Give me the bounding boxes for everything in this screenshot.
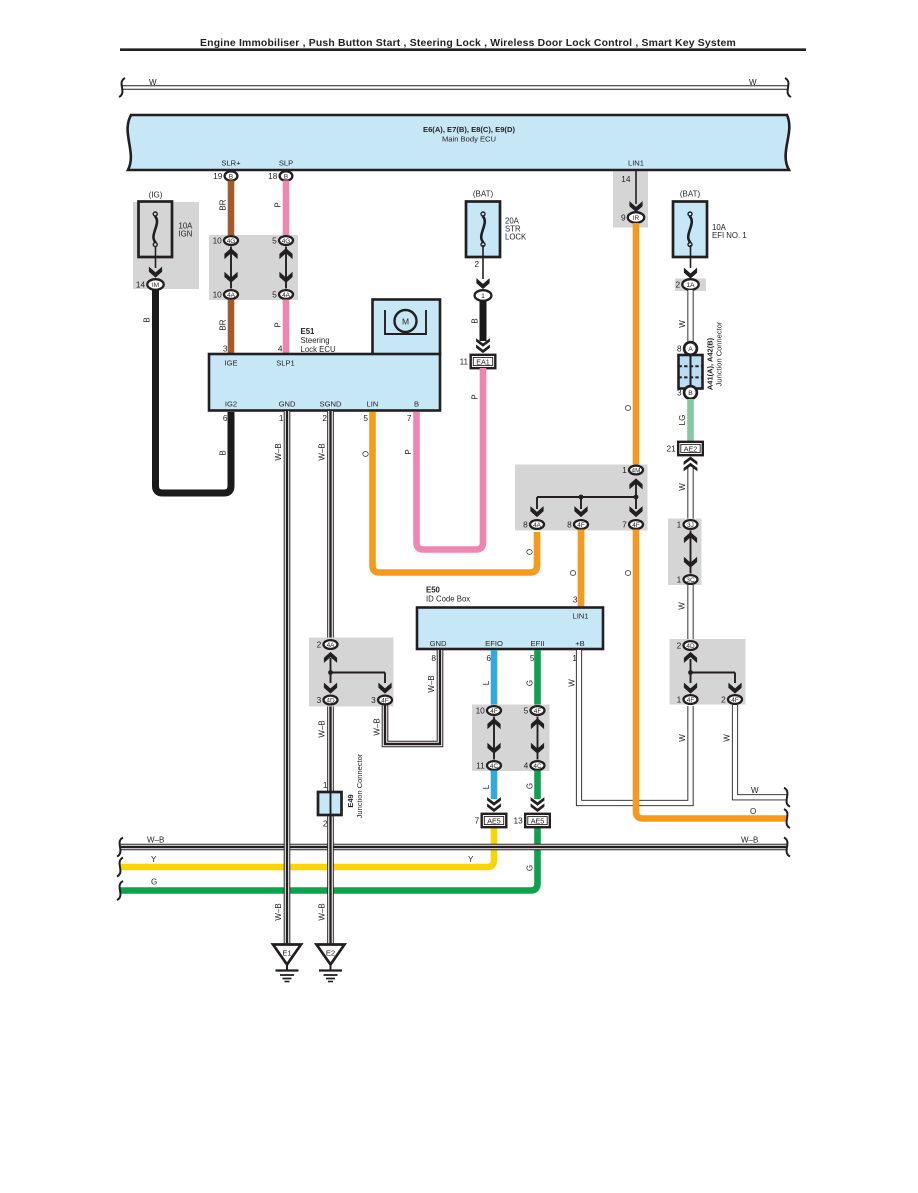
wire W +B to 4F1 [579, 650, 691, 803]
svg-text:8: 8 [677, 344, 682, 354]
junction lines 4D right [691, 659, 736, 683]
svg-text:O: O [526, 549, 535, 555]
ground E2 [317, 945, 345, 982]
break symbol W-B left [117, 838, 123, 857]
junction dot mid [579, 495, 584, 500]
arrow into IM [149, 267, 162, 278]
svg-text:AE5: AE5 [487, 816, 501, 825]
pin 3 B circle [677, 386, 697, 399]
svg-text:4F: 4F [490, 708, 498, 715]
svg-text:W–B: W–B [741, 836, 758, 845]
connector pin 18 B [268, 171, 292, 181]
svg-text:A41(A), A42(B): A41(A), A42(B) [706, 337, 715, 390]
pair arrow 4G-4A right [285, 247, 287, 289]
svg-text:(BAT): (BAT) [680, 190, 701, 199]
connector 10 4A [213, 290, 238, 300]
gray block 4F-4C [472, 705, 550, 772]
svg-text:W–B: W–B [318, 720, 327, 737]
svg-text:B: B [229, 173, 234, 180]
gray block 4D right [670, 639, 746, 705]
svg-text:EA1: EA1 [476, 357, 490, 366]
svg-text:2: 2 [721, 695, 726, 705]
svg-text:1: 1 [677, 695, 682, 705]
arrow into 4M [629, 478, 642, 489]
svg-text:2: 2 [317, 640, 322, 650]
fuse 20A STR LOCK [466, 202, 500, 258]
svg-text:E51: E51 [301, 327, 316, 336]
title underline [120, 48, 806, 51]
connector 2 4F right [721, 695, 742, 705]
break symbol top-right [785, 78, 791, 97]
svg-text:8: 8 [523, 520, 528, 530]
svg-text:W: W [678, 320, 687, 328]
svg-text:BR: BR [219, 319, 228, 330]
svg-text:W: W [678, 734, 687, 742]
connector 11 EA1 [460, 355, 496, 368]
svg-text:G: G [151, 878, 157, 887]
arrow into 1 [476, 278, 489, 289]
svg-text:11: 11 [476, 761, 485, 771]
arrow into 4F1 right [684, 683, 697, 694]
svg-text:11: 11 [460, 357, 469, 367]
svg-text:4C: 4C [533, 763, 542, 770]
junction lines 4M block [537, 483, 636, 509]
connector 11 4C [476, 761, 501, 771]
svg-text:G: G [526, 783, 535, 789]
arrow into 1A [684, 268, 697, 279]
wire LG B to AE2 [687, 399, 694, 441]
svg-text:1: 1 [279, 413, 284, 423]
svg-text:W–B: W–B [318, 903, 327, 920]
svg-text:3: 3 [371, 695, 376, 705]
svg-text:E6(A), E7(B), E8(C), E9(D): E6(A), E7(B), E8(C), E9(D) [423, 125, 515, 134]
wire fuse to 1A [690, 245, 692, 268]
wire W-B GND to E1 [284, 411, 291, 945]
connector 2 1A [675, 279, 698, 290]
svg-text:2: 2 [322, 413, 327, 423]
svg-text:G: G [526, 680, 535, 686]
connector 5 4A [272, 290, 293, 300]
connector 14 IM [136, 279, 164, 290]
svg-text:O: O [624, 570, 633, 576]
connector 2 4D [677, 641, 698, 651]
svg-text:1: 1 [677, 575, 682, 585]
svg-text:GND: GND [430, 639, 447, 648]
E51 block Steering Lock ECU [209, 354, 440, 411]
svg-text:W–B: W–B [427, 675, 436, 692]
svg-text:13: 13 [513, 816, 523, 826]
svg-text:Y: Y [151, 855, 157, 864]
arrow into 4A2 [324, 652, 337, 663]
gray strip IG fuse [133, 202, 199, 289]
svg-text:Lock ECU: Lock ECU [301, 345, 336, 354]
wire W-B 4F3 to E50 GND [385, 650, 440, 744]
connector 10 4G [213, 236, 238, 246]
connector 2 4A [317, 640, 338, 650]
connector 8 4A [523, 520, 544, 530]
svg-text:10: 10 [213, 236, 223, 246]
svg-text:4G: 4G [227, 238, 236, 245]
svg-text:W: W [568, 679, 577, 687]
svg-text:E49: E49 [346, 794, 355, 807]
connector 3 4D [317, 695, 338, 705]
junction connector E49 [318, 792, 342, 815]
svg-text:O: O [362, 451, 371, 457]
svg-text:4: 4 [524, 761, 529, 771]
svg-text:4D: 4D [326, 697, 335, 704]
svg-text:4F: 4F [577, 522, 585, 529]
double arrow into AE5 left [487, 803, 501, 812]
connector 7 AE5 [475, 814, 507, 827]
wire W top bus [122, 85, 788, 89]
svg-text:+B: +B [575, 639, 585, 648]
wire O 4F7 to break [636, 530, 787, 819]
svg-text:2: 2 [675, 280, 680, 290]
svg-text:2: 2 [677, 641, 682, 651]
gray block 3J-3C [668, 519, 702, 586]
connector 3 4F [371, 695, 392, 705]
wire W-B 4D to E2 [327, 706, 334, 945]
svg-text:4D: 4D [686, 643, 695, 650]
svg-text:4F: 4F [632, 522, 640, 529]
arrow into 4D2 [684, 652, 697, 663]
svg-text:LG: LG [678, 415, 687, 426]
wire W-B bottom bus [120, 844, 787, 851]
connector 8 4F [567, 520, 588, 530]
svg-text:W: W [723, 734, 732, 742]
svg-text:W: W [149, 78, 157, 87]
junction dot 4D right [688, 670, 693, 675]
svg-text:AE5: AE5 [531, 816, 545, 825]
svg-text:9: 9 [621, 213, 626, 223]
wire L 4C to AE5 [491, 771, 498, 800]
svg-text:8: 8 [431, 653, 436, 663]
connector pin 19 B [213, 171, 237, 181]
svg-text:4F: 4F [534, 708, 542, 715]
svg-text:W–B: W–B [373, 718, 382, 735]
break symbol Y left [117, 858, 123, 877]
motor bracket [385, 310, 426, 334]
svg-text:W–B: W–B [274, 443, 283, 460]
ground E1 [273, 945, 301, 982]
wire Y AE5 to left break [120, 827, 494, 867]
wire W-B SGND to 4A [327, 411, 334, 639]
double arrow below AE2 [684, 457, 698, 466]
svg-text:IG2: IG2 [225, 400, 237, 409]
svg-text:4A: 4A [282, 292, 291, 299]
gray block 4A-4D [309, 638, 394, 707]
double arrow into EA1 [476, 345, 490, 354]
svg-text:18: 18 [268, 171, 278, 181]
svg-text:2: 2 [323, 819, 328, 829]
svg-text:SLP: SLP [279, 159, 293, 168]
svg-text:EFIO: EFIO [485, 639, 503, 648]
svg-text:B: B [471, 318, 480, 323]
svg-text:1: 1 [622, 465, 627, 475]
svg-text:EFI NO. 1: EFI NO. 1 [712, 231, 747, 240]
svg-text:IM: IM [152, 282, 159, 289]
connector 21 AE2 [666, 442, 702, 455]
svg-text:LIN: LIN [367, 400, 379, 409]
svg-text:L: L [482, 680, 491, 685]
svg-text:ID Code Box: ID Code Box [426, 595, 470, 604]
svg-text:E50: E50 [426, 586, 441, 595]
junction lines 4A-4D [331, 658, 386, 683]
connector 5 4F [524, 706, 545, 716]
connector 1 4F right [677, 695, 698, 705]
svg-text:19: 19 [213, 171, 223, 181]
svg-text:1: 1 [323, 780, 328, 790]
connector 1 3J [677, 520, 698, 530]
connector 13 AE5 [513, 814, 549, 827]
svg-text:4: 4 [278, 344, 283, 354]
wire fuse to 1 [482, 245, 484, 279]
svg-text:W–B: W–B [274, 903, 283, 920]
connector 10 4F [476, 706, 501, 716]
svg-text:1: 1 [677, 520, 682, 530]
connector 1 3C [677, 575, 698, 585]
svg-text:BR: BR [219, 199, 228, 210]
svg-text:W: W [751, 786, 759, 795]
svg-text:4A: 4A [327, 642, 336, 649]
wire BR 4A to IGE [228, 300, 235, 355]
svg-text:SLP1: SLP1 [276, 359, 295, 368]
svg-text:3: 3 [677, 388, 682, 398]
svg-text:W: W [678, 483, 687, 491]
svg-text:L: L [482, 784, 491, 789]
svg-text:SGND: SGND [320, 400, 342, 409]
svg-text:10: 10 [213, 290, 223, 300]
svg-text:1A: 1A [687, 282, 696, 289]
svg-text:5: 5 [272, 236, 277, 246]
arrow into IR [629, 201, 642, 212]
svg-text:Engine Immobiliser , Push Butt: Engine Immobiliser , Push Button Start ,… [200, 38, 736, 49]
svg-text:3J: 3J [687, 522, 694, 529]
svg-text:EFII: EFII [531, 639, 545, 648]
svg-text:5: 5 [363, 413, 368, 423]
fuse 10A IGN [139, 202, 173, 258]
E50 block ID Code Box [417, 608, 603, 650]
svg-text:IGN: IGN [179, 230, 193, 239]
svg-text:3C: 3C [686, 577, 695, 584]
svg-text:B: B [414, 400, 419, 409]
svg-text:3: 3 [223, 344, 228, 354]
svg-text:7: 7 [407, 413, 412, 423]
svg-text:Y: Y [468, 855, 474, 864]
svg-text:LIN1: LIN1 [628, 159, 644, 168]
svg-text:5: 5 [530, 653, 535, 663]
svg-text:E1: E1 [282, 949, 291, 958]
svg-text:21: 21 [666, 444, 676, 454]
svg-text:SLR+: SLR+ [221, 159, 241, 168]
ECU block E6-E9 Main Body ECU [128, 115, 790, 170]
svg-text:14: 14 [621, 174, 631, 184]
connector 1 4M [622, 465, 643, 475]
svg-text:3: 3 [317, 695, 322, 705]
pin 8 A circle [677, 342, 697, 355]
svg-text:P: P [274, 202, 283, 207]
junction dot 4A-4D [328, 670, 333, 675]
svg-text:6: 6 [223, 413, 228, 423]
svg-text:G: G [526, 865, 535, 871]
svg-text:14: 14 [136, 280, 146, 290]
svg-text:IR: IR [633, 215, 640, 222]
wire fuse to IM [155, 246, 157, 268]
svg-text:A: A [688, 346, 693, 353]
pair arrow 3J-3C [690, 531, 692, 574]
svg-text:O: O [750, 807, 756, 816]
svg-text:B: B [284, 173, 289, 180]
svg-text:8: 8 [567, 520, 572, 530]
junction dot right [634, 495, 639, 500]
wire W 1A to A41 [687, 290, 693, 343]
break symbol W-B right [784, 838, 790, 857]
double arrow into AE5 right [531, 803, 545, 812]
wire W 3C to 4D [687, 585, 693, 640]
arrow into 4F2 right [728, 683, 741, 694]
svg-text:4M: 4M [632, 467, 641, 474]
svg-text:Junction Connector: Junction Connector [715, 321, 724, 386]
svg-text:M: M [402, 317, 409, 327]
junction connector A41 grid [679, 355, 703, 389]
break symbol G left [117, 881, 123, 900]
svg-text:E2: E2 [326, 949, 335, 958]
svg-text:LIN1: LIN1 [572, 612, 588, 621]
svg-text:1: 1 [481, 293, 485, 300]
svg-text:4A: 4A [533, 522, 542, 529]
wire O LIN to 4A [373, 412, 538, 573]
svg-text:4F: 4F [381, 697, 389, 704]
wire G AE5 to left break [120, 827, 538, 891]
pair arrow 4F-4C right [537, 717, 539, 760]
wire P SLP to 4G [283, 181, 290, 237]
svg-text:4G: 4G [282, 238, 291, 245]
svg-text:P: P [274, 322, 283, 327]
svg-text:B: B [688, 390, 693, 397]
svg-text:4F: 4F [687, 697, 695, 704]
svg-text:O: O [624, 405, 633, 411]
wire G EFII to 4F [534, 650, 541, 706]
svg-text:2: 2 [474, 259, 479, 269]
wire O 4F to E50 LIN1 [578, 530, 585, 608]
svg-text:O: O [569, 570, 578, 576]
svg-text:W–B: W–B [147, 836, 164, 845]
fuse 10A EFI NO.1 [673, 202, 707, 258]
pair arrow 4G-4A left [230, 247, 232, 289]
arrow into 4D3 [324, 683, 337, 694]
arrow into 4F mid [574, 506, 587, 517]
svg-text:P: P [404, 449, 413, 454]
gray block 4G-4A [209, 235, 298, 300]
svg-text:P: P [471, 394, 480, 399]
arrow into 4F3 [378, 683, 391, 694]
svg-text:7: 7 [622, 520, 627, 530]
svg-text:5: 5 [272, 290, 277, 300]
wire W 4F2 to break [735, 705, 787, 797]
svg-text:3: 3 [573, 595, 578, 605]
svg-text:4A: 4A [227, 292, 236, 299]
break symbol W right [784, 788, 790, 807]
wire G 4C to AE5 [534, 771, 541, 800]
wire B IM to IG2 [156, 290, 232, 494]
connector 4 4C [524, 761, 545, 771]
svg-text:6: 6 [486, 653, 491, 663]
connector 7 4F [622, 520, 643, 530]
wire L EFIO to 4F [491, 650, 498, 706]
svg-text:Main Body ECU: Main Body ECU [442, 135, 496, 144]
svg-text:IGE: IGE [224, 359, 237, 368]
wire P 4A to SLP1 [283, 300, 290, 355]
svg-text:(IG): (IG) [149, 191, 163, 200]
svg-text:W: W [678, 602, 687, 610]
gray strip 1A [675, 279, 706, 292]
break symbol O right [784, 809, 790, 828]
svg-text:7: 7 [475, 816, 480, 826]
gray strip LIN1 [613, 172, 648, 228]
wire B 1 to EA1 [480, 301, 487, 341]
wire O IR to 4M [633, 223, 640, 465]
svg-text:GND: GND [279, 400, 296, 409]
arrow into 4F right [629, 506, 642, 517]
svg-text:4C: 4C [490, 763, 499, 770]
wire W AE2 to 3J [687, 468, 693, 519]
svg-text:AE2: AE2 [684, 444, 698, 453]
pair arrow 4F-4C left [493, 717, 495, 760]
svg-text:10: 10 [476, 706, 486, 716]
break symbol top-left [119, 78, 125, 97]
svg-text:W: W [749, 78, 757, 87]
connector 9 IR [621, 212, 644, 223]
connector 5 4G [272, 236, 293, 246]
wire pin14 to IR [635, 171, 637, 204]
svg-text:4F: 4F [731, 697, 739, 704]
wire P EA1 loop to B [417, 368, 484, 550]
connector 1 oval [475, 290, 492, 301]
motor box of E51 [373, 300, 441, 355]
arrow into 4A mid [530, 506, 543, 517]
svg-text:Steering: Steering [301, 336, 330, 345]
svg-text:W–B: W–B [318, 443, 327, 460]
motor M circle [395, 310, 417, 332]
svg-text:B: B [219, 450, 228, 455]
svg-text:B: B [143, 317, 152, 322]
gray block 4M [515, 465, 648, 531]
wire BR SLR+ to 4G [228, 181, 235, 237]
svg-text:LOCK: LOCK [505, 233, 527, 242]
svg-text:5: 5 [524, 706, 529, 716]
svg-text:(BAT): (BAT) [473, 190, 494, 199]
svg-text:Junction Connector: Junction Connector [355, 753, 364, 818]
